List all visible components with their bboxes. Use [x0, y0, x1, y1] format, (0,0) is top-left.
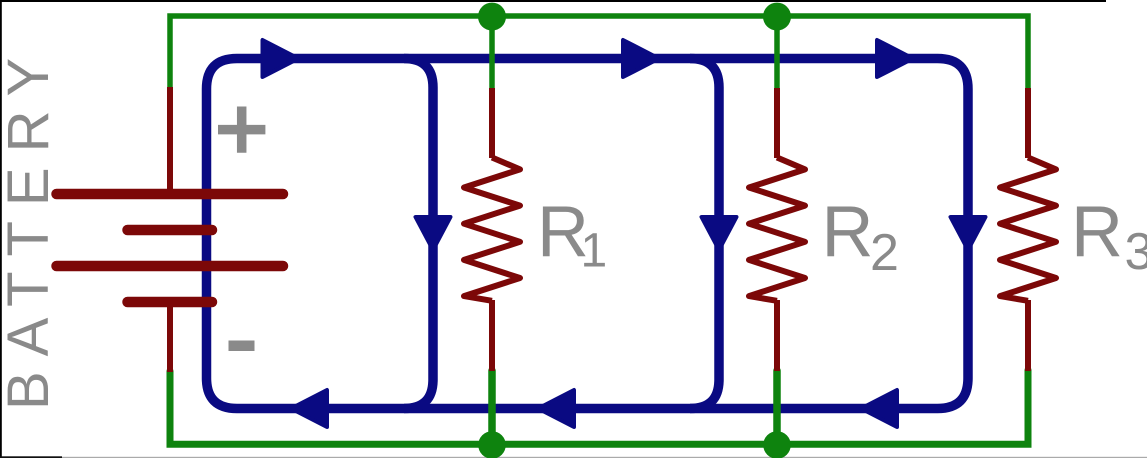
- wire green stub below node B: [774, 16, 780, 89]
- arrow south branch 2: [702, 217, 737, 250]
- battery BT1 plate short negative 1: [128, 225, 213, 236]
- resistor R1 bottom lead: [489, 300, 495, 371]
- arrow west bottom 1: [291, 390, 327, 427]
- battery plus sign: [218, 107, 265, 153]
- svg-text:R: R: [1071, 192, 1123, 272]
- node C junction dot: [478, 431, 506, 458]
- resistor R2 zigzag body: [749, 158, 805, 301]
- border mark left: [0, 0, 2, 458]
- resistor R3 top lead: [1025, 88, 1031, 158]
- resistor R3 zigzag body: [1000, 158, 1056, 301]
- current loop main blue outline: [207, 59, 969, 409]
- current loop branch 1: [404, 59, 433, 409]
- resistor R1 zigzag body: [464, 158, 520, 301]
- battery minus sign: [229, 341, 255, 352]
- border mark bottom: [0, 457, 1147, 458]
- wire green stub above node D: [773, 371, 781, 445]
- arrow west bottom 3: [861, 390, 897, 427]
- arrow west bottom 2: [538, 390, 574, 427]
- node A junction dot: [478, 3, 506, 31]
- resistor R2 bottom lead: [774, 300, 780, 371]
- arrow south branch 1: [416, 217, 451, 250]
- wire green top rail with left and right drops: [170, 16, 1028, 89]
- current loop branch 2: [690, 59, 719, 409]
- battery BT1 plate long positive 1: [57, 189, 284, 200]
- wire green stub above node C: [488, 371, 496, 445]
- resistor R1 top lead: [489, 88, 495, 158]
- battery BT1 top lead: [167, 87, 173, 191]
- svg-text:2: 2: [870, 224, 899, 282]
- arrow east top 1: [263, 40, 299, 77]
- resistor R3 bottom lead: [1025, 300, 1031, 371]
- wire green stub below node A: [489, 16, 495, 89]
- arrow east top 2: [623, 40, 659, 77]
- battery BT1 plate long positive 2: [57, 261, 284, 272]
- arrow south right side: [951, 217, 986, 250]
- node B junction dot: [763, 3, 791, 31]
- battery BT1 bottom lead: [167, 305, 173, 372]
- border mark top: [0, 0, 1106, 2]
- svg-text:3: 3: [1125, 223, 1147, 281]
- wire green bottom rail with left and right risers: [170, 370, 1028, 444]
- resistor R2 top lead: [774, 88, 780, 158]
- node D junction dot: [763, 431, 791, 458]
- svg-text:1: 1: [581, 225, 608, 278]
- svg-text:R: R: [822, 192, 874, 272]
- arrow east top 3: [877, 40, 913, 77]
- battery BT1 plate short negative 2: [128, 297, 213, 308]
- svg-text:BATTERY: BATTERY: [0, 43, 61, 410]
